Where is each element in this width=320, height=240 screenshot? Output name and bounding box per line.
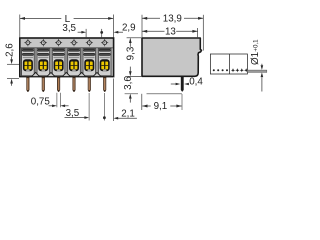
svg-text:13: 13 (165, 27, 176, 38)
svg-text:0,75: 0,75 (31, 97, 51, 108)
svg-text:3,5: 3,5 (62, 23, 76, 34)
svg-text:9,3: 9,3 (125, 46, 136, 60)
svg-text:9,1: 9,1 (154, 101, 168, 112)
svg-text:13,9: 13,9 (163, 14, 182, 25)
svg-text:2,9: 2,9 (122, 22, 136, 33)
svg-text:Ø1: Ø1 (250, 52, 261, 65)
svg-text:3,6: 3,6 (123, 76, 134, 90)
svg-text:0,4: 0,4 (189, 76, 203, 87)
svg-text:2,6: 2,6 (5, 43, 16, 57)
svg-text:+0,1: +0,1 (252, 39, 259, 52)
svg-text:2,1: 2,1 (121, 108, 135, 119)
svg-text:3,5: 3,5 (66, 108, 80, 119)
